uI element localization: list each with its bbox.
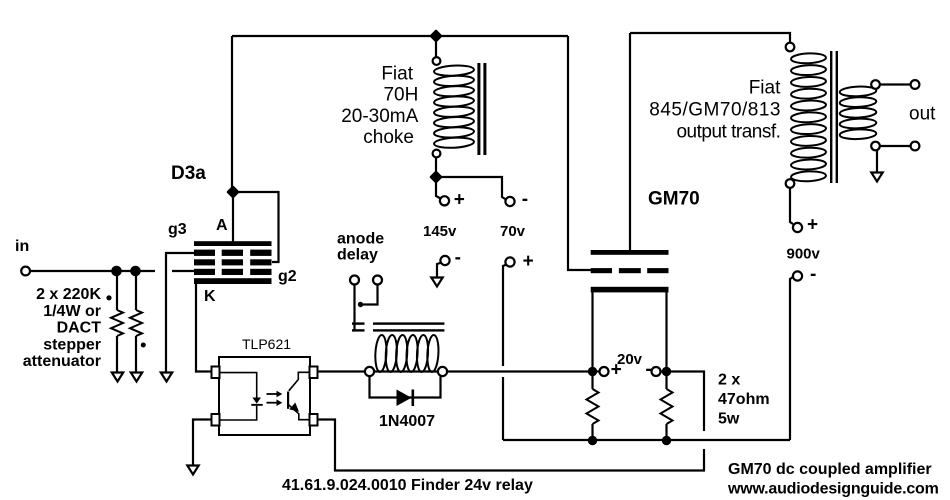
wire top-right rail [630,33,790,43]
wire left rail down to GM70 grid [568,36,591,270]
wire relay flyback diode loop [370,377,441,398]
svg-text:+: + [454,189,465,210]
wire 145v minus drop [437,263,442,278]
svg-text:in: in [15,238,29,255]
out top terminal [911,80,920,89]
wire anode delay right contact [363,285,378,305]
bullet mark near 220K label [106,295,111,300]
svg-text:g3: g3 [168,221,187,238]
junction dot filament left [588,367,597,376]
terminal anode delay right [373,276,382,285]
relay coil left terminal [365,367,374,376]
svg-text:70H: 70H [383,85,418,106]
terminal 145v plus [440,196,449,205]
wire optocoupler pin 4 to relay coil [318,370,365,372]
terminal 20v plus [600,367,609,376]
wire secondary ground drop [876,150,878,172]
output transformer T1 core bars [830,51,832,183]
relay K1 core lines [352,322,444,331]
svg-text:K: K [204,288,216,305]
junction dot bottom rail left [588,436,597,445]
svg-text:20-30mA: 20-30mA [341,106,418,127]
svg-text:GM70 dc coupled amplifier: GM70 dc coupled amplifier [728,461,932,478]
resistor 47ohm right zigzag [661,389,673,424]
ground arrow optocoupler [187,466,198,475]
svg-text:900v: 900v [787,246,821,263]
svg-text:DACT: DACT [57,320,102,337]
svg-text:145v: 145v [423,223,457,240]
wire attenuator resistor 2 top [135,271,137,310]
choke top terminal [433,57,441,65]
svg-text:1/4W or: 1/4W or [43,303,101,320]
tube D3a grid g3 dashes [194,250,272,256]
wire choke top drop [435,36,437,57]
primary top terminal [786,43,795,52]
choke L1 core bars [477,63,480,155]
output transformer T1 secondary coil [840,86,877,140]
optocoupler U1 internal LED [220,373,263,420]
svg-text:-: - [455,248,461,269]
input terminal circle [21,267,30,276]
wire anode delay left contact [353,285,355,332]
svg-text:TLP621: TLP621 [242,336,291,352]
choke L1 coil [434,65,474,149]
wire junction to 70v minus terminal [436,177,506,200]
terminal 70v plus [505,257,514,266]
svg-text:70v: 70v [500,223,526,240]
out bottom terminal [911,142,920,151]
svg-text:www.audiodesignguide.com: www.audiodesignguide.com [727,481,939,498]
svg-text:choke: choke [363,127,414,148]
svg-text:5w: 5w [718,411,740,428]
output transformer T1 primary coil [791,53,826,182]
wire resistor R3 top [591,372,593,390]
junction node at D3a anode [228,187,238,197]
svg-text:A: A [216,217,228,234]
wire 70v plus drop upper [503,265,507,367]
optocoupler U1 pin 3 [310,414,318,426]
resistor 220K left zigzag [111,310,123,336]
svg-text:Fiat: Fiat [381,64,413,85]
wire attenuator resistor 1 top [116,271,118,310]
wire 900v plus link [790,188,793,224]
wire resistor R4 top [665,372,667,390]
ground arrow attenuator 1 [112,373,123,382]
ground arrow 145v minus [431,278,442,287]
svg-text:47ohm: 47ohm [718,391,770,408]
wire 900v minus riser [790,277,793,440]
tube D3a grid g2 dashes [194,259,272,265]
wire bottom supply rail [503,439,790,441]
tube GM70 grid dashes [591,268,669,273]
svg-text:Fiat: Fiat [749,77,781,98]
svg-text:anode: anode [337,231,384,248]
terminal 900v plus [793,223,802,232]
optocoupler U1 pin 1 [212,367,220,379]
junction dot filament right [662,367,671,376]
wire 20v plus stub [593,370,600,372]
wire relay coil to GM70 filament [374,370,588,372]
svg-text:41.61.9.024.0010 Finder 24v re: 41.61.9.024.0010 Finder 24v relay [282,477,533,494]
svg-text:delay: delay [337,247,378,264]
junction dot bottom rail right [662,436,671,445]
wire top-left rail [232,35,568,37]
terminal 70v minus [505,197,514,206]
svg-text:+: + [807,215,818,236]
wire secondary top to out terminal [880,83,911,85]
terminal 20v minus [652,367,661,376]
svg-text:-: - [810,264,816,285]
svg-text:-: - [522,189,528,210]
wire attenuator resistor 2 bottom [135,336,137,372]
wire attenuator resistor 1 bottom [116,336,118,372]
tube D3a plate bar [194,241,272,246]
terminal 900v minus [793,271,802,280]
svg-text:+: + [523,251,534,272]
optocoupler U1 phototransistor [287,372,310,419]
wire 20v minus stub [661,370,667,372]
svg-text:stepper: stepper [43,336,101,353]
wire resistor R3 bottom [591,424,593,440]
wire left riser to D3a anode node [231,36,233,192]
tube GM70 plate bar [591,250,669,255]
ground arrow secondary [871,173,882,182]
wire 70v plus drop lower [502,377,504,440]
ground arrow g3 [161,373,172,382]
svg-text:g2: g2 [278,268,297,285]
svg-text:845/GM70/813: 845/GM70/813 [649,100,781,121]
ground arrow attenuator 2 [131,373,142,382]
wire D3a cathode to optocoupler pin 1 [196,284,211,372]
wire resistor R4 bottom [665,424,667,440]
resistor 47ohm left zigzag [587,389,599,424]
wire optocoupler pin 2 to ground [193,420,211,466]
diode 1N4007 [397,390,415,407]
optocoupler U1 TLP621 body [219,357,310,435]
wire GM70 plate drop [629,33,631,250]
wire 20v minus to relay return [667,372,705,432]
junction dot input attenuator 2 [130,266,141,277]
svg-text:+: + [611,359,622,380]
svg-text:-: - [645,359,651,380]
wire D3a g3 to ground [166,253,194,372]
wire GM70 filament right leg [665,292,667,372]
wire D3a g2 to anode strap [233,192,279,262]
junction node below choke [431,172,441,182]
secondary top terminal [871,80,880,89]
wire choke bottom to junction [436,157,441,199]
junction dot input attenuator 1 [111,266,122,277]
wire D3a anode drop [232,192,234,242]
svg-text:attenuator: attenuator [23,353,101,370]
wire input to tube g1 (right part after hop) [172,270,194,272]
svg-text:D3a: D3a [171,163,206,184]
svg-text:output transf.: output transf. [676,121,780,142]
junction node at top rail / choke [431,31,441,41]
wire secondary bottom to out terminal [880,145,911,147]
primary bottom terminal [786,179,795,188]
optocoupler U1 light arrows [267,391,283,406]
svg-text:2 x 220K: 2 x 220K [36,286,101,303]
tube GM70 cathode bar [591,287,669,293]
choke bottom terminal [433,150,441,158]
relay coil right terminal [438,367,447,376]
optocoupler U1 pin 4 [310,367,318,379]
secondary bottom terminal [871,142,880,151]
relay armature pivot dot [358,302,363,307]
svg-text:1N4007: 1N4007 [379,413,435,430]
terminal 145v minus [440,256,449,265]
svg-text:out: out [909,104,936,125]
relay K1 coil [374,335,439,373]
wire GM70 filament left leg [591,292,593,372]
svg-text:GM70: GM70 [648,189,700,210]
wire input to tube g1 (left part) [30,270,155,272]
wire relay return lower [318,420,704,471]
resistor 220K right zigzag [130,310,142,336]
bullet mark near stepper label [141,343,146,348]
tube D3a cathode bar [194,278,272,284]
tube D3a grid g1 dashes [194,269,272,275]
terminal anode delay left [350,276,359,285]
svg-text:2 x: 2 x [718,372,740,389]
optocoupler U1 pin 2 [212,414,220,426]
